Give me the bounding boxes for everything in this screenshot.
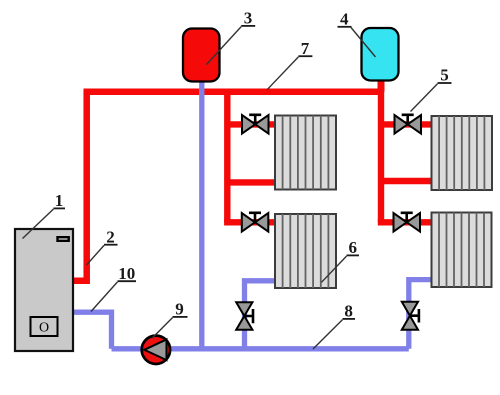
valve V1 (top-left radiator inlet, label 5 type) bbox=[242, 115, 269, 134]
wire: blue return from bottom-left radiator bbox=[245, 281, 279, 349]
wire: blue boiler return (10) bbox=[71, 312, 112, 349]
boiler 1 bbox=[15, 229, 73, 351]
label 9 + leader bbox=[152, 300, 187, 339]
pump 9 (circulation pump) bbox=[142, 336, 170, 364]
radiator (top-left) bbox=[275, 116, 336, 190]
valve V6 (vertical, right return drop) bbox=[402, 302, 419, 330]
valve V2 (bottom-left radiator inlet) bbox=[242, 213, 268, 232]
wire: red branch to top-left radiator (valve row) bbox=[227, 121, 278, 127]
wire: red branch to bottom-right radiator (valve row) bbox=[378, 219, 434, 225]
radiator (top-right) bbox=[432, 116, 493, 190]
open tank 4 (cyan) bbox=[362, 28, 399, 81]
valve V4 (bottom-right radiator inlet) bbox=[394, 213, 421, 232]
svg-text:1: 1 bbox=[55, 191, 64, 210]
label 8 + leader bbox=[313, 302, 355, 350]
label 7 + leader bbox=[267, 39, 312, 90]
label 10 + leader bbox=[91, 264, 136, 312]
wire: blue drop from expansion tank 3 to return main bbox=[199, 78, 204, 349]
radiator (bottom-left, label 6) bbox=[275, 214, 336, 288]
svg-text:7: 7 bbox=[301, 39, 310, 58]
wire: red left riser bbox=[224, 89, 230, 223]
wire: red branch to top-right radiator (valve row) bbox=[381, 121, 434, 127]
wire: red right riser bbox=[378, 89, 384, 223]
svg-text:3: 3 bbox=[244, 9, 253, 28]
svg-text:10: 10 bbox=[118, 264, 135, 283]
wire: red branch to bottom-left radiator (valve row) bbox=[224, 219, 278, 225]
wire: blue bottom return main (8) bbox=[112, 346, 409, 351]
wire: red branch to top-left radiator bottom bbox=[227, 179, 278, 185]
svg-text:2: 2 bbox=[106, 227, 115, 246]
svg-text:O: O bbox=[39, 321, 49, 336]
label 5 + leader bbox=[411, 66, 452, 112]
valve V5 (vertical, left return drop) bbox=[236, 302, 253, 330]
label 1 + leader bbox=[23, 191, 66, 239]
label 6 + leader bbox=[322, 238, 360, 282]
label 2 + leader bbox=[87, 227, 118, 265]
label 4 + leader bbox=[338, 9, 376, 57]
expansion tank 3 (red) bbox=[183, 29, 220, 82]
svg-text:5: 5 bbox=[440, 66, 449, 85]
wire: red stub under open tank 4 bbox=[378, 74, 385, 92]
svg-text:6: 6 bbox=[348, 238, 357, 257]
svg-text:8: 8 bbox=[344, 302, 353, 321]
wire: red supply riser from boiler to top main bbox=[71, 92, 87, 281]
wire: red branch to top-right radiator bottom bbox=[381, 178, 434, 184]
radiator (bottom-right) bbox=[432, 213, 492, 288]
svg-text:4: 4 bbox=[340, 9, 349, 28]
wire: blue return from bottom-right radiator bbox=[409, 280, 434, 349]
label 3 + leader bbox=[207, 9, 256, 65]
svg-text:9: 9 bbox=[175, 300, 184, 319]
wire: red top main header (7) bbox=[84, 88, 382, 95]
valve V3 (top-right radiator inlet, label 5) bbox=[395, 115, 422, 134]
